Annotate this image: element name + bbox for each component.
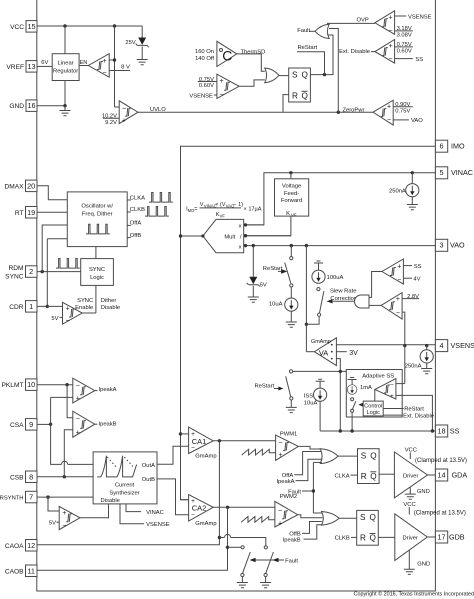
svg-text:Fault: Fault [285,558,298,564]
svg-text:GDA: GDA [452,470,468,479]
svg-text:ZeroPwr: ZeroPwr [342,108,364,114]
svg-text:IpeakA: IpeakA [99,387,117,393]
svg-text:SYNC: SYNC [89,267,105,273]
svg-text:−: − [102,70,106,77]
svg-text:Ext. Disable: Ext. Disable [339,49,370,55]
svg-text:+: + [219,78,223,85]
svg-text:−: − [396,310,400,317]
svg-text:5V: 5V [260,282,267,288]
svg-text:+: + [388,43,392,50]
svg-text:−: − [65,317,69,324]
svg-text:K: K [286,211,290,217]
svg-text:15: 15 [27,22,35,31]
svg-text:Dither: Dither [101,298,117,304]
svg-text:−: − [191,512,195,519]
svg-text:PKLMT: PKLMT [2,382,24,389]
svg-text:Slew Rate: Slew Rate [330,289,356,295]
svg-text:GND: GND [417,562,430,568]
svg-text:+: + [387,104,391,111]
svg-text:Mult: Mult [224,234,235,240]
svg-text:0.60V: 0.60V [199,83,214,89]
svg-text:ReStart: ReStart [255,384,275,390]
svg-text:Logic: Logic [90,275,104,281]
svg-text:3.08V: 3.08V [397,33,412,39]
svg-text:+: + [122,118,126,125]
svg-text:CLKB: CLKB [130,207,145,213]
svg-text:+: + [390,393,394,400]
svg-text:VINAC: VINAC [146,510,164,516]
svg-text:Regulator: Regulator [53,68,78,74]
svg-text:5: 5 [439,168,443,177]
svg-text:−: − [278,508,282,515]
svg-text:+: + [396,296,400,303]
svg-text:10uA: 10uA [304,401,318,407]
svg-text:CAOA: CAOA [5,543,24,550]
svg-text:VSENSE: VSENSE [146,522,170,528]
svg-text:2: 2 [29,267,33,276]
svg-text:RSYNTH: RSYNTH [0,496,24,502]
svg-text:(Clamped at 13.5V): (Clamped at 13.5V) [415,458,467,464]
svg-text:Feed-: Feed- [284,191,299,197]
svg-text:DMAX: DMAX [4,183,24,190]
svg-text:R: R [292,91,298,100]
svg-text:Q: Q [302,71,308,80]
svg-text:+: + [76,396,80,403]
svg-text:GND: GND [9,103,24,110]
svg-text:IpeakA: IpeakA [276,479,294,485]
svg-text:C: C [222,47,232,63]
svg-text:Driver: Driver [403,473,419,479]
svg-text:+: + [62,510,66,517]
svg-text:ThermSD: ThermSD [241,49,266,55]
svg-text:250nA: 250nA [389,189,406,195]
svg-text:9: 9 [29,420,33,429]
svg-text:CSA: CSA [10,422,24,429]
svg-text:−: − [122,105,126,112]
svg-text:Disable: Disable [101,498,120,504]
svg-text:0.75V: 0.75V [199,77,214,83]
svg-text:CLKA: CLKA [130,195,145,201]
svg-text:OutA: OutA [142,463,155,469]
svg-text:100uA: 100uA [327,275,344,281]
svg-text:Forward: Forward [281,198,302,204]
svg-text:10uA: 10uA [269,302,283,308]
svg-text:S: S [292,71,298,80]
svg-text:GmAmp: GmAmp [195,521,216,527]
svg-text:VAO: VAO [411,118,423,124]
svg-text:IpeakB: IpeakB [99,422,117,428]
svg-text:0.75V: 0.75V [397,42,412,48]
svg-text:−: − [76,382,80,389]
svg-text:8 V: 8 V [121,65,130,71]
svg-text:−: − [76,416,80,423]
svg-text:25V: 25V [125,40,135,46]
svg-text:10: 10 [27,380,35,389]
svg-text:−: − [390,381,394,388]
svg-text:VSENSE: VSENSE [408,14,432,20]
svg-text:VA: VA [319,348,328,357]
svg-text:6: 6 [439,142,443,151]
svg-text:6V: 6V [41,60,48,66]
svg-text:=: = [194,207,197,213]
svg-text:3V: 3V [349,350,358,357]
svg-text:RT: RT [15,210,24,217]
svg-text:Q: Q [370,472,376,481]
svg-text:+: + [65,305,69,312]
svg-text:x: x [239,223,242,229]
svg-text:+: + [279,452,283,459]
svg-text:16: 16 [27,101,35,110]
svg-text:VCC: VCC [405,447,417,453]
svg-text:−: − [191,445,195,452]
svg-text:IpeakB: IpeakB [283,537,301,543]
svg-text:GmAmp: GmAmp [311,339,331,345]
svg-text:CLKA: CLKA [334,473,349,479]
svg-text:5V: 5V [51,316,58,322]
svg-text:3.18V: 3.18V [397,26,412,32]
svg-text:CAOB: CAOB [5,568,24,575]
svg-text:S: S [361,452,367,461]
svg-text:0.60V: 0.60V [397,49,412,55]
svg-text:IMO: IMO [451,142,465,151]
svg-text:R: R [360,534,366,543]
svg-text:4: 4 [439,341,443,350]
svg-text:Fault: Fault [297,28,310,34]
svg-text:OVP: OVP [357,18,369,24]
svg-text:5V: 5V [49,521,56,527]
svg-text:Current: Current [115,482,135,488]
svg-text:Voltage: Voltage [282,184,301,190]
svg-text:−: − [387,117,391,124]
svg-text:(Clamped at 13.5V): (Clamped at 13.5V) [414,511,466,517]
svg-text:OutB: OutB [142,477,155,483]
svg-text:GmAmp: GmAmp [195,453,216,459]
svg-text:VF: VF [291,213,297,218]
svg-text:−: − [219,92,223,99]
svg-text:SYNC: SYNC [5,273,24,280]
svg-text:Linear: Linear [58,60,74,66]
svg-text:3: 3 [439,241,443,250]
svg-text:Logic: Logic [367,410,381,416]
svg-text:2.8V: 2.8V [407,294,419,300]
svg-text:GDB: GDB [449,532,465,541]
svg-text:9.2V: 9.2V [105,120,117,126]
svg-text:Q: Q [370,513,376,522]
svg-text:CDR: CDR [9,304,24,311]
svg-text:+: + [397,263,401,270]
svg-text:− 1): − 1) [233,202,243,208]
svg-text:Adaptive SS: Adaptive SS [362,373,394,379]
svg-text:VCC: VCC [403,502,415,508]
svg-text:Enable: Enable [75,305,93,311]
svg-text:× (V: × (V [215,202,226,208]
svg-text:CSB: CSB [10,474,24,481]
svg-text:13: 13 [27,62,35,71]
svg-text:19: 19 [27,208,35,217]
svg-text:OffB: OffB [130,233,142,239]
svg-text:PWM1: PWM1 [280,431,297,437]
svg-text:140 Off: 140 Off [195,56,214,62]
svg-text:Control: Control [364,404,382,410]
svg-text:VINAC: VINAC [451,168,473,177]
svg-text:+: + [76,429,80,436]
svg-text:14: 14 [437,470,445,479]
svg-text:Fault: Fault [288,489,301,495]
svg-text:× 17µA: × 17µA [244,207,262,213]
svg-text:Ext. Disable: Ext. Disable [403,413,434,419]
svg-text:20: 20 [27,181,35,190]
svg-text:Q: Q [370,452,376,461]
svg-text:OffA: OffA [130,221,142,227]
svg-text:1mA: 1mA [360,385,372,391]
svg-text:VF: VF [220,213,226,218]
svg-text:11: 11 [27,566,35,575]
svg-text:ReStart: ReStart [404,407,424,413]
svg-text:17: 17 [437,532,445,541]
svg-text:Oscillator w/: Oscillator w/ [81,204,113,210]
svg-text:x: x [239,244,242,250]
svg-text:0.75V: 0.75V [395,108,410,114]
svg-text:−: − [397,276,401,283]
svg-text:−: − [388,28,392,35]
svg-text:R: R [361,472,367,481]
svg-text:+: + [388,15,392,22]
svg-text:4V: 4V [413,277,420,283]
svg-text:+: + [102,58,106,65]
svg-text:−: − [62,523,66,530]
svg-text:+: + [191,498,195,505]
svg-text:CLKB: CLKB [335,536,350,542]
svg-text:Disable: Disable [101,305,120,311]
svg-text:Q: Q [302,91,308,100]
svg-text:−: − [279,440,283,447]
svg-text:250nA: 250nA [405,363,422,369]
svg-text:Copyright © 2016, Texas Instru: Copyright © 2016, Texas Instruments Inco… [354,591,474,598]
svg-text:RDM: RDM [8,265,23,272]
svg-text:GND: GND [417,489,430,495]
svg-text:VSENSE: VSENSE [451,341,474,350]
svg-text:160 On: 160 On [195,49,214,55]
svg-text:0.90V: 0.90V [395,102,410,108]
svg-text:8: 8 [29,472,33,481]
svg-text:VCC: VCC [10,24,24,31]
svg-text:7: 7 [29,493,33,502]
svg-text:VREF: VREF [6,64,24,71]
svg-text:EN: EN [80,60,88,66]
svg-text:SYNC: SYNC [77,298,93,304]
svg-text:ISS: ISS [304,394,313,400]
svg-text:SS: SS [450,426,460,435]
svg-text:Freq. Dither: Freq. Dither [82,212,113,218]
svg-text:12: 12 [27,541,35,550]
svg-text:18: 18 [437,426,445,435]
svg-text:Driver: Driver [403,535,419,541]
svg-text:SS: SS [415,57,423,63]
svg-text:S: S [360,513,366,522]
svg-text:Synthesizer: Synthesizer [109,491,139,497]
svg-text:1: 1 [29,302,33,311]
svg-text:+: + [278,520,282,527]
svg-text:+: + [191,431,195,438]
svg-text:Q: Q [370,534,376,543]
svg-text:SS: SS [414,264,422,270]
svg-text:ReStart: ReStart [298,45,318,51]
svg-text:VAO: VAO [450,241,465,250]
svg-text:−: − [388,56,392,63]
svg-text:VSENSE: VSENSE [189,93,213,99]
